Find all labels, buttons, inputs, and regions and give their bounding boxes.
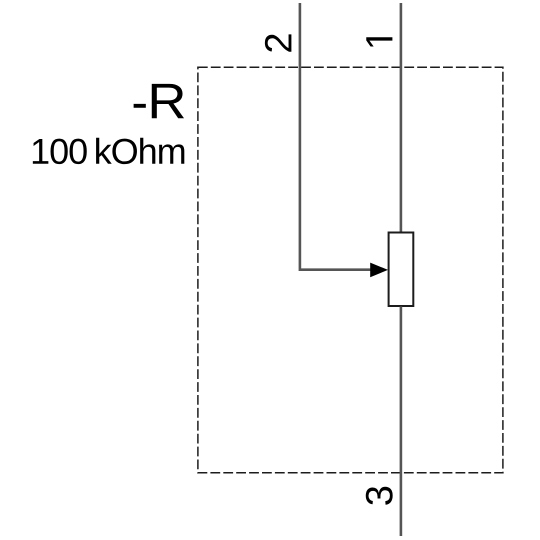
wiper arrow: [370, 263, 388, 278]
pin 1 wire: [400, 3, 403, 232]
pin 3 label: [366, 487, 393, 505]
component outline (dashed enclosure): [198, 67, 503, 473]
value label 100 kOhm: [33, 138, 184, 164]
pin 2 wire (wiper lead): [300, 3, 373, 270]
resistor body (potentiometer element): [389, 233, 414, 307]
pin 3 wire: [400, 307, 403, 537]
pin 1 label: [366, 37, 392, 46]
pin 2 label: [265, 34, 292, 51]
reference designator -R: [134, 104, 146, 108]
